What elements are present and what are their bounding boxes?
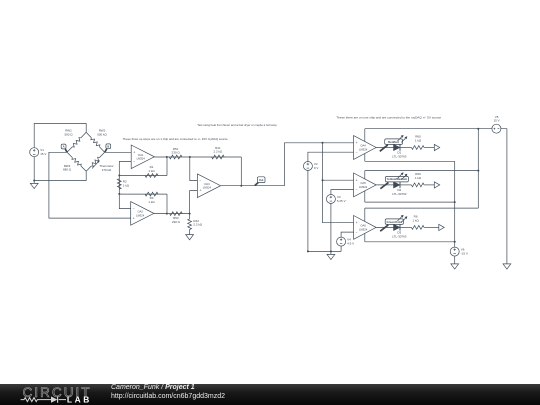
- wire V- comp2: [365, 201, 455, 203]
- wire OA1 - input: [119, 162, 131, 176]
- thermistor arrow: [92, 161, 100, 169]
- wire R42 to ground: [189, 230, 191, 235]
- junction: [118, 193, 120, 195]
- svg-text:−: −: [133, 160, 135, 164]
- wire OA2 output row: [154, 213, 190, 215]
- wire V+ rail comp3: [365, 207, 479, 209]
- wire V4- down: [340, 246, 342, 251]
- svg-text:LM324: LM324: [359, 227, 368, 231]
- svg-text:−: −: [356, 230, 358, 234]
- svg-text:LTL-30763: LTL-30763: [392, 234, 407, 238]
- op-amp OA1: [131, 145, 154, 169]
- svg-text:Out: Out: [259, 179, 263, 182]
- CircuitLab logo: [0, 384, 100, 405]
- junction: [240, 185, 242, 187]
- svg-text:+: +: [356, 141, 358, 145]
- wire V3 to OA5 -: [331, 190, 354, 195]
- voltage source V6: [450, 247, 468, 256]
- output port arrow OA6 out: [439, 224, 444, 230]
- svg-text:+: +: [356, 178, 358, 182]
- resistor R60: [411, 135, 424, 150]
- svg-text:Red/Hot: Red/Hot: [388, 140, 399, 144]
- svg-text:470 kΩ: 470 kΩ: [102, 168, 112, 172]
- svg-text:-15 V: -15 V: [461, 252, 468, 256]
- svg-text:LM324: LM324: [136, 213, 145, 217]
- svg-text:LTL-30763: LTL-30763: [392, 155, 407, 159]
- wire V2- down: [307, 171, 309, 252]
- junction: [118, 175, 120, 177]
- svg-text:Test using heat from flexer an: Test using heat from flexer and a hair d…: [197, 123, 277, 127]
- svg-text:Green/Cold: Green/Cold: [387, 220, 403, 224]
- svg-text:−: −: [356, 150, 358, 154]
- svg-text:1 kΩ: 1 kΩ: [412, 218, 419, 222]
- wire OA4 output to LED: [376, 147, 393, 149]
- svg-text:−: −: [356, 188, 358, 192]
- junction: [307, 250, 309, 252]
- LED D OA5: [392, 172, 407, 196]
- wire V+ bus: [477, 129, 479, 208]
- wire OA3 output to comparators: [221, 143, 354, 186]
- wire V- comp3: [365, 241, 455, 243]
- wire node A to OA2 +: [49, 152, 131, 218]
- junction: [322, 142, 324, 144]
- svg-text:2.2 kΩ: 2.2 kΩ: [193, 223, 203, 227]
- svg-text:OA3: OA3: [204, 182, 210, 186]
- resistor R51: [169, 147, 182, 159]
- svg-text:+: +: [133, 150, 135, 154]
- wire R3 down: [166, 194, 168, 214]
- wire OA3 - input: [190, 157, 198, 181]
- wire bridge bottom to ground rail: [34, 171, 86, 180]
- wire resistor to port: [424, 184, 434, 186]
- svg-text:These three op amps are on 1 c: These three op amps are on 1 chip and ar…: [123, 137, 228, 141]
- svg-text:LTL-30763: LTL-30763: [392, 192, 407, 196]
- ground under V1: [30, 183, 38, 188]
- flag Yellow/Medium label: [380, 176, 408, 188]
- wire reference ground rail: [308, 250, 341, 252]
- svg-text:680 Ω: 680 Ω: [63, 168, 72, 172]
- svg-text:+: +: [199, 189, 201, 193]
- svg-text:+: +: [133, 216, 135, 220]
- svg-text:OA6: OA6: [360, 224, 366, 228]
- wire R3 row: [119, 193, 167, 195]
- ground under V6: [451, 264, 459, 269]
- resistor R42: [188, 219, 203, 230]
- svg-text:9 V: 9 V: [314, 166, 319, 170]
- wire ground stub: [330, 251, 332, 254]
- ground under R42: [186, 235, 194, 240]
- flag Red/Hot label: [380, 139, 403, 151]
- ground far right: [503, 264, 511, 269]
- op-amp OA5: [354, 171, 377, 203]
- wire OA1 output row: [154, 156, 241, 158]
- wire node B to OA1 +: [105, 151, 132, 153]
- op-amp OA4: [354, 129, 377, 162]
- voltage source V2: [303, 162, 318, 171]
- wire to R42: [189, 214, 191, 219]
- wire resistor to port: [424, 226, 439, 228]
- resistor R52: [170, 212, 183, 224]
- wire LED to resistor: [400, 184, 411, 186]
- junction: [166, 156, 168, 158]
- svg-text:LM324: LM324: [203, 186, 212, 190]
- svg-text:15 V: 15 V: [494, 119, 500, 123]
- wire V6 to ground: [454, 256, 456, 264]
- voltage source V4: [337, 237, 355, 246]
- junction: [454, 201, 456, 203]
- wire V2 to OA4 -: [308, 152, 354, 161]
- resistor RW1: [64, 129, 86, 153]
- op-amp OA3: [197, 174, 220, 198]
- wire LED to resistor: [400, 147, 411, 149]
- svg-text:OA5: OA5: [360, 181, 366, 185]
- voltage source V5: [492, 115, 501, 133]
- svg-text:15 V: 15 V: [40, 152, 46, 156]
- flag Green/Cold label: [380, 219, 403, 231]
- junction: [477, 128, 479, 130]
- ground reference rail: [327, 254, 335, 259]
- wire LED to resistor: [400, 226, 411, 228]
- junction: [166, 213, 168, 215]
- flag Out: [255, 177, 265, 186]
- svg-text:B: B: [107, 144, 109, 148]
- svg-text:LM324: LM324: [359, 185, 368, 189]
- svg-text:2.2 kΩ: 2.2 kΩ: [214, 150, 224, 154]
- wire V+ rail comp1 to V5: [365, 128, 492, 130]
- svg-text:LAB: LAB: [67, 394, 92, 404]
- svg-text:Yellow/Medium: Yellow/Medium: [387, 177, 408, 181]
- wire V1- down: [33, 157, 35, 184]
- svg-text:+: +: [356, 221, 358, 225]
- svg-text:500 kΩ: 500 kΩ: [97, 133, 107, 137]
- wire OA6 output to LED: [376, 226, 393, 228]
- svg-text:LM324: LM324: [359, 147, 368, 151]
- wire OA5 output to LED: [376, 184, 393, 186]
- op-amp OA2: [131, 202, 154, 226]
- wire V3- down: [330, 204, 332, 252]
- svg-text:LM324: LM324: [137, 157, 146, 161]
- junction: [322, 179, 324, 181]
- wire V1+ to bridge top: [34, 124, 86, 148]
- svg-text:1 kΩ: 1 kΩ: [415, 138, 422, 142]
- wire to OA3 +: [190, 191, 198, 214]
- wire resistor to port: [424, 147, 434, 149]
- wire V- comp1: [365, 160, 455, 162]
- junction: [189, 213, 191, 215]
- resistor RW2: [86, 129, 107, 153]
- LED D OA6: [392, 215, 407, 239]
- resistor R2: [117, 179, 129, 189]
- wire V5- down right: [501, 129, 507, 264]
- voltage source V3: [326, 195, 345, 204]
- output port arrow OA5 out: [434, 182, 439, 188]
- svg-text:500 Ω: 500 Ω: [64, 133, 73, 137]
- resistor R6: [411, 215, 424, 230]
- svg-text:5.25 V: 5.25 V: [337, 199, 346, 203]
- svg-text:These three are on one chip an: These three are on one chip and are conn…: [336, 116, 441, 120]
- wire signal bus down to OA6 +: [323, 143, 354, 223]
- svg-text:230 Ω: 230 Ω: [172, 220, 181, 224]
- svg-text:1 kΩ: 1 kΩ: [148, 200, 155, 204]
- svg-text:OA2: OA2: [138, 210, 144, 214]
- voltage source V1: [30, 148, 47, 157]
- resistor R41: [212, 146, 225, 159]
- flag node B: [105, 144, 111, 152]
- junction: [454, 241, 456, 243]
- svg-text:1 kΩ: 1 kΩ: [123, 183, 130, 187]
- resistor RW3: [63, 152, 86, 171]
- flag node A: [61, 144, 67, 152]
- resistor R66: [411, 172, 424, 187]
- wire R1 row: [119, 175, 167, 177]
- resistor R3: [145, 192, 158, 204]
- wire V+ rail comp2: [365, 170, 479, 172]
- footer bar: [0, 384, 540, 405]
- svg-text:1 kΩ: 1 kΩ: [148, 169, 155, 173]
- svg-text:OA1: OA1: [138, 153, 144, 157]
- junction: [477, 170, 479, 172]
- svg-text:A: A: [63, 145, 65, 149]
- wire V- bus to V6: [454, 161, 456, 247]
- resistor thermistor RT1: [86, 152, 113, 172]
- wire R41 down to output: [240, 157, 242, 186]
- svg-text:−: −: [199, 179, 201, 183]
- svg-text:230 Ω: 230 Ω: [172, 151, 181, 155]
- resistor R1: [145, 165, 158, 177]
- wire R2 column to OA2 -: [119, 176, 130, 209]
- output port arrow OA4 out: [434, 144, 439, 150]
- svg-text:1 kΩ: 1 kΩ: [415, 176, 422, 180]
- junction: [189, 156, 191, 158]
- LED D OA4: [392, 135, 407, 159]
- svg-text:OA4: OA4: [360, 144, 366, 148]
- svg-text:−: −: [133, 207, 135, 211]
- wire V4 to OA6 -: [341, 232, 354, 237]
- svg-text:4.5 V: 4.5 V: [347, 242, 354, 246]
- op-amp OA6: [354, 208, 377, 242]
- junction: [330, 250, 332, 252]
- wire bus to OA5 +: [323, 179, 354, 181]
- wire R1 up: [166, 157, 168, 176]
- junction: [33, 180, 35, 182]
